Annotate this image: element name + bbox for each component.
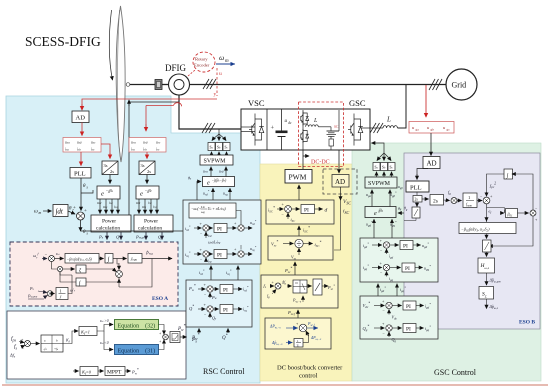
svg-text:Pw: Pw bbox=[211, 295, 217, 300]
row2 sum1 bbox=[200, 247, 210, 262]
RSC current loop box bbox=[183, 200, 261, 264]
wires SVPWM to gate boxes (GSC) bbox=[377, 172, 392, 177]
row1 PI box bbox=[214, 224, 227, 233]
sc resistor bbox=[329, 139, 334, 150]
svg-text:PI: PI bbox=[217, 227, 222, 233]
svg-text:∫dt: ∫dt bbox=[55, 208, 64, 216]
wire current loop d to PWM bbox=[298, 185, 300, 200]
slashes near grid bbox=[429, 79, 442, 90]
svg-text:PLL: PLL bbox=[74, 171, 86, 178]
svg-text:isd: isd bbox=[109, 201, 113, 205]
svg-text:dc: dc bbox=[288, 121, 292, 125]
row1 output u_gd* bbox=[413, 244, 421, 246]
small filter box bbox=[294, 339, 303, 348]
row1 output i_gd* bbox=[416, 305, 424, 307]
svg-text:MPPT: MPPT bbox=[107, 370, 122, 376]
frequency support logic white box bbox=[7, 311, 186, 379]
SVPWM box (GSC) bbox=[365, 177, 397, 188]
wire AD to PLL bbox=[417, 169, 428, 179]
i_gd feedback bbox=[386, 249, 388, 254]
wire sum4 to 1/J bbox=[53, 293, 55, 295]
fal function box ESO A bbox=[65, 254, 99, 264]
e^-j theta_s rotation box (stator) bbox=[97, 186, 120, 199]
xi gain box bbox=[76, 265, 86, 274]
wires e-box to power calc (stator) bbox=[100, 199, 118, 214]
svg-text:PWM: PWM bbox=[289, 173, 307, 182]
svg-text:∫: ∫ bbox=[78, 280, 81, 287]
DC-DC right rail bbox=[338, 110, 340, 131]
SVPWM box (RSC) bbox=[200, 155, 233, 165]
encoder u/y dashed red line bbox=[214, 68, 223, 98]
svg-text:urα: urα bbox=[203, 169, 208, 174]
wire latch to 2s box bbox=[422, 198, 429, 200]
svg-text:εω: εω bbox=[56, 252, 60, 256]
svg-text:−jβs: −jβs bbox=[106, 188, 114, 193]
wire abc box to PLL (red) bbox=[80, 152, 82, 166]
row2 sum (GSC power) bbox=[382, 321, 392, 336]
wire integrator to sum bbox=[68, 211, 75, 214]
wires current box to e-box (GSC) bbox=[374, 219, 392, 238]
V_dc feedback bbox=[388, 310, 390, 315]
wires equations to output sum bbox=[159, 325, 165, 334]
wire sum to fal box bbox=[55, 258, 64, 260]
svg-text:SC: SC bbox=[334, 125, 339, 129]
shaft bearing circle bbox=[126, 83, 130, 87]
RSC power loop box bbox=[186, 280, 252, 327]
svg-text:u: u bbox=[219, 71, 222, 77]
svg-text:urc: urc bbox=[156, 140, 161, 145]
svg-text:isb: isb bbox=[77, 147, 81, 152]
2s box bbox=[430, 195, 444, 206]
droop table box bbox=[293, 280, 307, 293]
theta_g input into e-box from right bbox=[398, 212, 404, 214]
wire Kf=0 to MPPT bbox=[98, 370, 104, 372]
svg-text:Us + σLrirq): Us + σLrirq) bbox=[208, 207, 227, 211]
wire fal to integrator ESO A bbox=[99, 258, 104, 260]
i_SC* output bbox=[303, 243, 312, 245]
svg-text:VSC: VSC bbox=[248, 98, 265, 108]
svg-text:usc: usc bbox=[91, 140, 96, 145]
SC current loop box (yellow box1) bbox=[266, 200, 334, 224]
MPPT box bbox=[105, 367, 125, 376]
svg-text:Equation (31): Equation (31) bbox=[118, 348, 156, 355]
rotary encoder (red dashed circle) bbox=[188, 52, 215, 76]
DC link capacitor bbox=[276, 109, 288, 150]
fan wires GSC converter to gate boxes bbox=[372, 143, 392, 161]
row1 PI (GSC current) bbox=[400, 241, 413, 250]
svg-text:Equation (32): Equation (32) bbox=[118, 323, 156, 330]
theta integrator tall box bbox=[412, 207, 420, 218]
svg-text:εω >0: εω >0 bbox=[100, 319, 109, 323]
svg-text:urq: urq bbox=[142, 205, 147, 209]
wire abc box to 3s/2s (red elbow) bbox=[101, 144, 110, 158]
rotation box e^j theta_g bbox=[365, 207, 396, 218]
DC-DC left rail bbox=[302, 110, 304, 150]
svg-text:jβg: jβg bbox=[378, 209, 384, 213]
H_omega box bbox=[478, 258, 495, 273]
svg-text:SVPWM: SVPWM bbox=[204, 159, 227, 165]
theta sum circle bbox=[73, 206, 87, 220]
row2 PI (GSC power) bbox=[403, 324, 416, 333]
limiter box 1/T bbox=[170, 332, 180, 343]
supercapacitor stack bbox=[327, 127, 340, 139]
DC-DC dashed red box bbox=[299, 102, 344, 167]
svg-text:L: L bbox=[386, 116, 391, 124]
svg-text:ird: ird bbox=[148, 201, 152, 205]
svg-text:3s: 3s bbox=[104, 163, 108, 168]
i_gq feedback bbox=[386, 272, 388, 277]
row2 sum (power) bbox=[204, 302, 214, 317]
DFIG machine bbox=[169, 74, 190, 95]
svg-text:AD: AD bbox=[76, 115, 86, 122]
svg-text:gb: gb bbox=[431, 128, 435, 132]
1/f_nom box bbox=[463, 193, 477, 208]
P_w* output arrow bbox=[180, 336, 187, 338]
svg-text:usα: usα bbox=[65, 140, 70, 145]
e_f node and wire down bbox=[486, 204, 488, 222]
grid-side inductor L bbox=[383, 126, 397, 128]
wire DC-DC to AD (yellow) bbox=[338, 150, 340, 173]
GSC AC output stub bbox=[361, 127, 384, 129]
row1 sum (GSC power) bbox=[382, 299, 392, 314]
d output bbox=[315, 208, 323, 210]
box1 PI bbox=[301, 205, 315, 214]
stator abc quantities red box bbox=[63, 138, 101, 153]
red grid voltage tap arrow bbox=[425, 85, 427, 117]
small sum 2 ESO A bbox=[57, 266, 62, 271]
svg-text:PI: PI bbox=[217, 253, 222, 259]
wires power box to current box bbox=[211, 266, 238, 280]
svg-text:Power: Power bbox=[144, 219, 158, 225]
row2 PI box bbox=[214, 250, 227, 259]
wire Kf=1 branches bbox=[97, 325, 113, 332]
svg-text:Rotary: Rotary bbox=[195, 57, 208, 62]
shaft wire gearbox to DFIG bbox=[162, 84, 169, 86]
wire theta to e-box (left out) bbox=[404, 218, 416, 221]
J_equ box bbox=[128, 254, 142, 264]
row1 PI (GSC power) bbox=[403, 301, 416, 310]
slashes on GSC wire bbox=[370, 123, 383, 133]
svg-text:PI: PI bbox=[406, 327, 411, 333]
speed feedback line with up arrow bbox=[129, 102, 179, 215]
i_rq feedback row2 bbox=[205, 258, 207, 262]
wire omega_m to integrator bbox=[43, 210, 52, 212]
wire 3s/2s to e-box (stator) bbox=[109, 175, 111, 184]
svg-text:urβ: urβ bbox=[219, 169, 224, 174]
svg-text:PI: PI bbox=[304, 208, 309, 214]
wire AD to stator abc box (red) bbox=[81, 123, 83, 136]
svg-text:calculation: calculation bbox=[96, 226, 120, 232]
svg-text:Grid: Grid bbox=[452, 81, 467, 90]
K_f = 0 box bbox=[80, 367, 98, 376]
ESO B main sum bbox=[480, 194, 493, 204]
svg-text:2s: 2s bbox=[415, 198, 419, 202]
P_s Q outputs down to ESO A bbox=[107, 232, 162, 240]
wire V/i down into boxes bbox=[334, 200, 341, 250]
theta_s minus theta_r output down bbox=[80, 220, 82, 231]
small latch box under PLL bbox=[413, 196, 422, 203]
wire into ESO A sum bbox=[42, 258, 47, 260]
svg-text:DC boost/buck converter: DC boost/buck converter bbox=[277, 365, 343, 372]
wire PLL theta_s into sum bbox=[80, 209, 82, 211]
svg-text:ga: ga bbox=[416, 128, 420, 132]
wire box4 to box3 bbox=[297, 310, 299, 318]
svg-text:iSC: iSC bbox=[343, 209, 350, 216]
svg-text:RSC Control: RSC Control bbox=[203, 367, 245, 376]
row1 sum1 bbox=[200, 221, 210, 236]
svg-text:+: + bbox=[84, 209, 87, 214]
feedback from J output down to sum3 bbox=[119, 259, 152, 288]
svg-text:SVPWM: SVPWM bbox=[368, 181, 391, 187]
i_SC feedback bbox=[287, 213, 289, 219]
dq components labels (stator) bbox=[97, 201, 118, 209]
svg-text:irb: irb bbox=[143, 147, 147, 152]
DC-DC lower IGBT bbox=[301, 129, 309, 143]
ESO A region (pink, dashed border) bbox=[10, 242, 178, 306]
svg-text:εω <0: εω <0 bbox=[100, 341, 109, 345]
svg-text:GSC: GSC bbox=[349, 98, 366, 108]
wires current box to e-box bbox=[213, 188, 230, 200]
box1 sum bbox=[282, 202, 292, 218]
grid circle bbox=[446, 69, 477, 100]
PLL box bbox=[70, 168, 91, 179]
svg-text:DFIG: DFIG bbox=[165, 63, 187, 73]
Q_s feedback bbox=[209, 313, 211, 318]
V_sc feedback into divider bbox=[298, 248, 300, 255]
wire rotor box to 3s/2s (red) bbox=[146, 152, 148, 159]
row1 output u_rd bbox=[244, 227, 252, 229]
Equation (32) green box bbox=[115, 320, 159, 330]
wire red box to AD (GSC) bbox=[430, 133, 432, 156]
svg-text:gc: gc bbox=[447, 128, 451, 132]
wire integrator branch down to sum3 bbox=[117, 259, 119, 265]
svg-text:1: 1 bbox=[60, 289, 62, 294]
row2 PI (GSC current) bbox=[402, 263, 415, 272]
f feedback bbox=[272, 290, 276, 295]
AD box (yellow) bbox=[332, 175, 349, 188]
gate signal boxes S_a S_b S_c (GSC) bbox=[373, 163, 395, 171]
GSC IGBT bbox=[348, 114, 363, 146]
power calculation box (rotor) bbox=[134, 215, 173, 232]
Q_g feedback bbox=[388, 332, 390, 337]
P_w,ave estimate output bbox=[142, 258, 172, 260]
svg-text:Ps: Ps bbox=[98, 235, 104, 240]
row1 output i_rd* bbox=[233, 288, 242, 290]
AD box (GSC) bbox=[423, 157, 440, 169]
theta input into e-box from left bbox=[81, 182, 201, 232]
svg-text:Power: Power bbox=[102, 219, 116, 225]
svg-text:PI: PI bbox=[223, 288, 228, 294]
wire H to S box with delta p label bbox=[486, 273, 488, 285]
deadband block bbox=[41, 335, 63, 352]
GSC control region (light green) bbox=[352, 143, 541, 381]
svg-text:PI: PI bbox=[406, 304, 411, 310]
K_f = 1 box bbox=[79, 327, 97, 336]
svg-text:control: control bbox=[299, 373, 318, 380]
integrator top right box bbox=[504, 169, 513, 179]
box4 sum bbox=[296, 321, 309, 338]
svg-text:∫: ∫ bbox=[107, 256, 110, 263]
svg-text:m: m bbox=[225, 59, 229, 64]
svg-text:ird: ird bbox=[208, 234, 212, 238]
rotor wire DFIG down bbox=[179, 95, 241, 129]
1/J box bbox=[56, 288, 68, 300]
rotation box e^-j(theta_s - theta_r) bbox=[203, 177, 235, 187]
i_rd feedback row1 bbox=[205, 232, 207, 238]
row2 output u_rq bbox=[244, 253, 252, 255]
row2 output i_gq* bbox=[416, 327, 424, 329]
svg-text:usd: usd bbox=[97, 201, 102, 205]
wire to xi box bbox=[63, 268, 75, 270]
svg-text:PI: PI bbox=[403, 244, 408, 250]
wires into sum4 (blue) bbox=[38, 291, 47, 298]
feedback branch down from omega path bbox=[52, 262, 58, 270]
svg-text:y: y bbox=[214, 92, 217, 98]
wire AD down V_SC i_SC bbox=[340, 187, 342, 200]
Equation (31) blue box bbox=[115, 345, 159, 355]
PWM box bbox=[285, 170, 312, 184]
S output arrow bbox=[486, 299, 488, 309]
stator wire DFIG to grid bbox=[190, 84, 447, 86]
svg-text:PLL: PLL bbox=[410, 185, 422, 192]
S_sigma box bbox=[479, 287, 494, 300]
svg-text:e: e bbox=[140, 191, 143, 198]
svg-text:ω: ω bbox=[34, 209, 38, 215]
P_sc,f output bbox=[307, 327, 318, 329]
VSC cell divider bbox=[266, 109, 268, 150]
svg-text:isq: isq bbox=[114, 205, 118, 209]
lower feedback integrator box bbox=[76, 278, 86, 287]
svg-text:AD: AD bbox=[335, 178, 345, 186]
buck/boost inductor L bbox=[306, 125, 332, 127]
svg-text:ESO B: ESO B bbox=[519, 320, 535, 326]
svg-text:isa: isa bbox=[65, 147, 69, 152]
svg-text:+: + bbox=[271, 125, 275, 132]
turbine blade bbox=[116, 6, 125, 162]
SC voltage loop box (yellow box2) bbox=[268, 236, 333, 260]
P_w feedback bbox=[209, 293, 211, 298]
wire theta_s to e-box (branch) bbox=[81, 190, 93, 193]
wire PLL theta_s down bbox=[80, 178, 82, 209]
row2 output u_gq* bbox=[415, 267, 423, 269]
3s/2s transform box (rotor) bbox=[139, 161, 155, 175]
DC-DC upper IGBT bbox=[301, 112, 309, 126]
svg-text:Lm: Lm bbox=[200, 205, 205, 209]
svg-text:DC-DC: DC-DC bbox=[311, 160, 330, 166]
limiter tall box bbox=[313, 279, 322, 295]
box3 sum bbox=[272, 280, 282, 290]
svg-text:ωsσLsirq: ωsσLsirq bbox=[208, 241, 221, 245]
e^-j theta_r rotation box (rotor) bbox=[136, 186, 159, 199]
row2 PI (power) bbox=[220, 305, 233, 314]
svg-text:urα: urα bbox=[131, 140, 136, 145]
wire converter to PWM vertical bbox=[302, 150, 304, 169]
red rotor measurement wire with slip-ring loop bbox=[146, 103, 182, 131]
DC boost/buck control region (yellow) bbox=[260, 164, 352, 381]
ESO B region (lavender) bbox=[404, 153, 540, 329]
svg-text:irq: irq bbox=[208, 260, 212, 264]
wire sum to deadband bbox=[31, 343, 40, 345]
wire fal box down to gain box bbox=[486, 234, 488, 239]
svg-text:Encoder: Encoder bbox=[194, 63, 210, 68]
P_sc* output bbox=[322, 285, 328, 287]
wire inductor to grid line bbox=[398, 85, 407, 128]
VSC AC input stubs bbox=[241, 126, 255, 128]
beta_01 box bbox=[506, 209, 518, 218]
wires e-box to SVPWM bbox=[211, 167, 226, 177]
fan wires rotor wire to gate signal boxes bbox=[212, 129, 226, 141]
svg-text:2s: 2s bbox=[433, 199, 438, 205]
svg-text:+: + bbox=[73, 206, 76, 211]
PLL box (GSC) bbox=[406, 181, 429, 192]
svg-text:ESO A: ESO A bbox=[152, 296, 168, 302]
svg-text:GSC Control: GSC Control bbox=[434, 368, 477, 377]
svg-text:AD: AD bbox=[427, 160, 437, 168]
VSC IGBT bbox=[249, 114, 264, 146]
slashes on stator wire bbox=[203, 79, 216, 89]
wire box2 to box1 bbox=[298, 226, 300, 236]
power reference calc box (yellow box3) bbox=[261, 275, 338, 308]
decoupling feedforward expression box bbox=[189, 203, 236, 218]
svg-text:urβ: urβ bbox=[143, 140, 148, 145]
output sum circle bbox=[159, 331, 168, 344]
3s/2s transform box (stator) bbox=[102, 161, 118, 175]
wire deadband to Kf=1 bbox=[63, 331, 78, 344]
wire mid-label to row2 sum2 bbox=[240, 245, 242, 250]
multiply circle bbox=[451, 198, 457, 204]
svg-text:PI: PI bbox=[223, 308, 228, 314]
wire xi to sum3 bbox=[86, 268, 113, 270]
svg-text:e: e bbox=[374, 211, 377, 217]
shaft wire blade to gearbox bbox=[130, 84, 155, 86]
svg-text:PI: PI bbox=[405, 266, 410, 272]
svg-text:1: 1 bbox=[468, 195, 470, 200]
gate signal boxes S_a S_b S_c (RSC) bbox=[208, 143, 230, 151]
svg-text:Jequ: Jequ bbox=[131, 257, 138, 262]
wire 3s/2s to e-box (rotor) bbox=[146, 175, 148, 184]
svg-text:VSC: VSC bbox=[343, 199, 351, 206]
row1 sum2 bbox=[234, 221, 244, 232]
sum 3 ESO A bbox=[112, 266, 122, 277]
gearbox bbox=[155, 80, 162, 90]
svg-text:urd: urd bbox=[136, 201, 141, 205]
wire filter to sum bbox=[303, 342, 309, 344]
row2 output i_rq* bbox=[233, 308, 242, 310]
grid voltage red box u_ga u_gb u_gc bbox=[409, 122, 454, 134]
row1 PI (power) bbox=[220, 285, 233, 294]
svg-text:SCESS-DFIG: SCESS-DFIG bbox=[25, 34, 101, 49]
svg-text:usβ: usβ bbox=[77, 140, 82, 145]
wire sum2 up to integrator bbox=[513, 174, 534, 210]
fal function box ESO B bbox=[459, 223, 516, 234]
svg-text:−jβr: −jβr bbox=[145, 188, 153, 193]
lower sum 4 bbox=[47, 291, 53, 297]
svg-text:calculation: calculation bbox=[138, 226, 162, 232]
wire sum2 down and left bbox=[490, 216, 534, 246]
svg-text:usq: usq bbox=[103, 205, 108, 209]
wires e-box to power calc (rotor) bbox=[139, 199, 157, 214]
svg-text:−j(βs−βr): −j(βs−βr) bbox=[212, 179, 227, 183]
row1 sum (GSC current) bbox=[380, 238, 390, 253]
divide circle bbox=[295, 239, 303, 247]
integrator box bbox=[53, 205, 68, 217]
svg-text:2s: 2s bbox=[147, 169, 151, 174]
svg-text:e: e bbox=[101, 191, 104, 198]
wire gain to H box bbox=[486, 252, 488, 257]
converter outer box (VSC + DC link + DC-DC + GSC) bbox=[241, 109, 370, 150]
svg-text:d: d bbox=[325, 208, 328, 214]
svg-text:Ps: Ps bbox=[191, 337, 197, 344]
